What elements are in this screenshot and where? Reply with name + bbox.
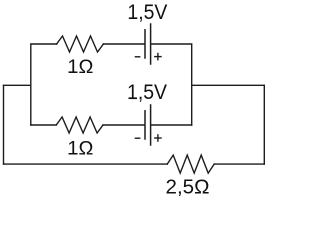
svg-text:1,5V: 1,5V bbox=[127, 1, 167, 24]
label L1 digit-1 foot serif bbox=[130, 17, 137, 19]
wire right link node to outer loop bbox=[192, 84, 265, 86]
wire left link node to outer loop bbox=[4, 84, 31, 86]
wire middle branch left segment bbox=[31, 124, 56, 126]
B1 plus sign bbox=[155, 54, 161, 60]
wire outer right vertical bbox=[263, 85, 265, 164]
svg-text:1Ω: 1Ω bbox=[67, 57, 93, 78]
battery B2 bbox=[145, 105, 151, 145]
wire R1 to battery B1 bbox=[103, 43, 144, 45]
B2 plus sign bbox=[155, 135, 161, 141]
resistor R3 bbox=[167, 155, 214, 173]
wire bottom right segment bbox=[214, 163, 264, 165]
wire R2 to battery B2 bbox=[103, 124, 144, 126]
label L2 digit-1 foot serif bbox=[130, 97, 137, 99]
resistor R1 bbox=[57, 36, 104, 52]
wire B2 to right column bbox=[151, 124, 191, 126]
wire B1 to right column bbox=[151, 44, 191, 125]
label L4 digit-1 foot serif bbox=[69, 153, 76, 155]
resistor R2 bbox=[56, 117, 103, 133]
wire top branch left segment bbox=[31, 44, 57, 125]
svg-text:2,5Ω: 2,5Ω bbox=[166, 176, 210, 198]
label L3 digit-1 foot serif bbox=[69, 71, 76, 73]
svg-text:1,5V: 1,5V bbox=[127, 81, 167, 104]
B1 minus sign bbox=[135, 56, 139, 58]
wire bottom left segment bbox=[4, 163, 168, 165]
battery B1 bbox=[145, 24, 151, 64]
svg-text:1Ω: 1Ω bbox=[67, 139, 93, 160]
B2 minus sign bbox=[135, 137, 139, 139]
wire outer left vertical bbox=[3, 85, 5, 164]
